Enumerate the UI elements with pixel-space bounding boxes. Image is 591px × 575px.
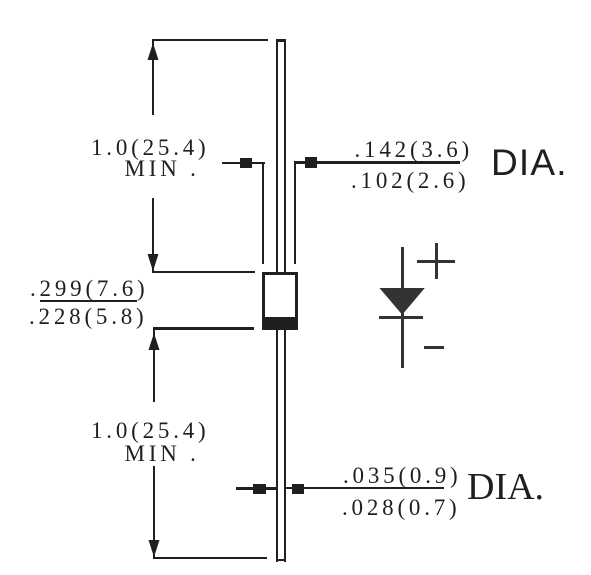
- polarity mark: plus horizontal: [417, 260, 455, 263]
- wire: lead-diameter dimension left leader: [236, 487, 277, 489]
- wire: fraction bar under .299(7.6): [40, 300, 137, 302]
- lead: upper segment right edge: [284, 39, 287, 274]
- wire: body-diameter right leader / fraction bar: [294, 161, 461, 163]
- label: DIA. lower: [467, 468, 544, 506]
- wire: horizontal line at body bottom from lower dimension vertical: [153, 327, 254, 329]
- wire: body-diameter right extension vertical: [294, 162, 297, 264]
- lead: bottom cap: [276, 559, 287, 562]
- diode D1: triangle: [378, 287, 426, 317]
- lead: lower segment left edge: [276, 329, 279, 562]
- arrowhead: lower dimension, pointing down: [147, 537, 162, 557]
- arrowhead: lower dimension, pointing up: [147, 333, 162, 353]
- arrowhead: lead-diameter right (solid square): [292, 484, 305, 495]
- wire: top lead min-length dimension line (horizontal at lead top): [152, 39, 268, 42]
- label: DIA. upper: [491, 144, 568, 181]
- value label: MIN. lower: [125, 442, 200, 465]
- arrowhead: upper dimension, pointing up: [146, 43, 161, 63]
- wire: body-diameter left extension vertical: [262, 162, 265, 264]
- lead: top cap: [276, 39, 287, 42]
- wire: lead-diameter right leader / fraction bar: [285, 487, 444, 489]
- value label: 1.0(25.4) lower lead length: [91, 419, 210, 442]
- body: cathode band: [262, 317, 298, 330]
- wire: body-diameter dimension left leader: [222, 162, 265, 164]
- arrowhead: upper dimension, pointing down: [146, 251, 161, 271]
- arrowhead: lead-diameter left (solid square): [253, 484, 266, 494]
- wire: lower dimension extension vertical (upper segment): [153, 327, 156, 402]
- value label: .035(0.9) lead diameter max: [343, 464, 462, 487]
- wire: horizontal line at body top from dimension vertical: [152, 271, 255, 274]
- body: package outline: [262, 272, 298, 330]
- arrowhead: body-diameter right (solid square): [305, 157, 317, 168]
- value label: .299(7.6) body length max: [30, 277, 149, 300]
- value label: .102(2.6) body diameter min: [351, 169, 470, 192]
- polarity mark: minus: [424, 346, 444, 349]
- value label: MIN. upper: [125, 157, 200, 180]
- wire: lower dimension extension vertical (lower segment): [153, 466, 156, 559]
- diode D1: cathode lead wire: [401, 318, 404, 368]
- value label: .142(3.6) body diameter max: [355, 138, 474, 161]
- lead: lower segment right edge: [284, 329, 287, 562]
- diode D1: cathode bar: [379, 316, 423, 319]
- arrowhead: body-diameter left (solid square): [240, 158, 253, 169]
- value label: .228(5.8) body length min: [29, 305, 148, 328]
- lead: upper segment left edge: [276, 39, 279, 274]
- wire: bottom dimension line (horizontal at lead bottom): [153, 557, 267, 559]
- value label: .028(0.7) lead diameter min: [342, 496, 461, 519]
- value label: 1.0(25.4) upper lead length: [91, 136, 210, 159]
- diode D1: anode lead wire: [401, 247, 404, 318]
- polarity mark: plus vertical: [435, 243, 438, 279]
- wire: upper dimension extension line vertical (upper segment): [152, 39, 155, 115]
- wire: upper dimension extension line vertical (lower segment): [152, 198, 155, 272]
